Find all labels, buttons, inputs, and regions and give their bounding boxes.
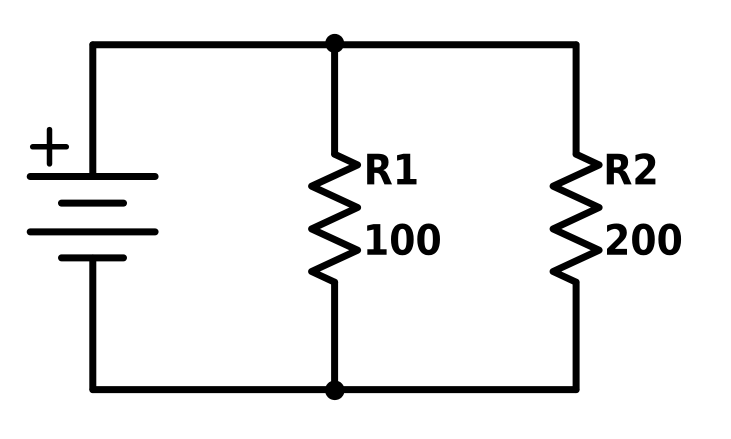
battery polarity + sign horizontal bar [33,144,67,150]
resistor R1 [312,154,358,282]
junction node B (bottom) [325,381,345,401]
battery V1 plate: top long (positive) [30,173,155,180]
value label 200 [607,224,681,256]
battery V1 plate: bottom short (negative) [62,254,124,261]
label R1 [367,154,416,185]
label R2 [607,153,656,184]
wire: top rail [93,41,576,48]
battery polarity + sign vertical bar [47,130,53,164]
junction node A (top) [325,34,344,53]
resistor R2 [553,154,599,282]
wire: bottom rail [93,386,576,393]
wire: battery - terminal to bottom rail [89,258,96,390]
wire: left vertical from battery + terminal to top rail [89,45,96,177]
value label 100 [367,224,440,256]
wire: R1 bottom lead to node B [331,282,338,389]
wire: R2 top lead from top rail [573,45,580,155]
wire: R2 bottom lead [573,282,580,389]
battery V1 plate: lower long [30,228,155,235]
battery V1 plate: upper short [62,200,124,207]
wire: R1 top lead from node A [331,45,338,155]
